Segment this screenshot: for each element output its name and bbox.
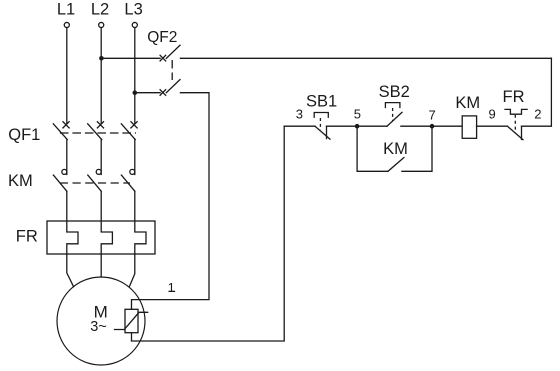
svg-text:L2: L2 bbox=[91, 1, 109, 19]
svg-text:QF2: QF2 bbox=[147, 29, 177, 46]
svg-text:KM: KM bbox=[8, 172, 33, 190]
svg-text:FR: FR bbox=[16, 228, 38, 246]
svg-text:SB2: SB2 bbox=[379, 83, 410, 101]
svg-text:5: 5 bbox=[354, 107, 361, 122]
svg-text:L3: L3 bbox=[124, 1, 142, 19]
svg-text:KM: KM bbox=[383, 140, 408, 158]
svg-text:3~: 3~ bbox=[90, 319, 107, 335]
svg-text:7: 7 bbox=[428, 108, 435, 123]
svg-text:KM: KM bbox=[455, 94, 480, 112]
svg-text:2: 2 bbox=[534, 107, 541, 122]
svg-text:9: 9 bbox=[488, 107, 495, 122]
svg-text:FR: FR bbox=[503, 88, 525, 106]
svg-text:L1: L1 bbox=[57, 1, 75, 19]
svg-text:1: 1 bbox=[168, 280, 175, 295]
svg-text:3: 3 bbox=[296, 107, 303, 122]
svg-text:SB1: SB1 bbox=[306, 93, 337, 111]
svg-text:QF1: QF1 bbox=[8, 126, 40, 144]
